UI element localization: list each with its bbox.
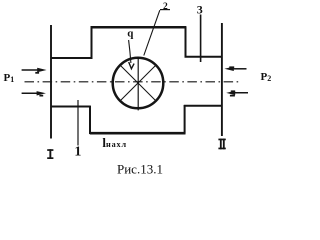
- specimen outline: middle block bottom edge: [90, 132, 186, 135]
- force arrow P1 lower shaft: [22, 92, 40, 94]
- arrowhead of left lower force arrow: [37, 91, 46, 95]
- svg-text:Рис.13.1: Рис.13.1: [117, 161, 163, 176]
- centerline axis (dash-dot): [25, 81, 241, 83]
- specimen outline: left strip bottom edge: [51, 106, 91, 108]
- specimen outline: bottom-left step vertical: [89, 106, 91, 134]
- specimen outline: top-right step vertical: [185, 27, 187, 58]
- section label II: [218, 139, 225, 150]
- svg-text:q: q: [127, 28, 134, 40]
- underline of label 2: [160, 9, 170, 11]
- section line I (left end of strip 1): [50, 25, 52, 139]
- circle diagonal diameter (upper-left to lower-right): [120, 65, 156, 101]
- svg-text:1: 1: [74, 145, 81, 160]
- svg-text:2: 2: [163, 2, 168, 12]
- circle diagonal diameter (lower-left to upper-right): [120, 65, 156, 101]
- plug weld circle: [113, 58, 164, 109]
- leader line for label 3: [200, 15, 202, 63]
- specimen outline: bottom-right step vertical: [184, 105, 186, 134]
- specimen outline: middle block top edge: [91, 26, 187, 29]
- specimen outline: left strip top edge: [51, 57, 92, 59]
- specimen outline: top-left step vertical: [91, 27, 93, 59]
- svg-text:3: 3: [197, 3, 203, 17]
- force arrow P2 lower shaft: [231, 92, 248, 94]
- force arrow P1 upper shaft: [22, 69, 40, 71]
- force arrow P2 upper shaft: [231, 68, 247, 70]
- arrowhead of right lower force arrow: [226, 91, 235, 95]
- specimen outline: right strip top edge: [185, 56, 223, 58]
- leader line for label 2: [144, 10, 160, 55]
- arrowhead of right upper force arrow: [224, 67, 233, 71]
- leader line for q with small arrow: [129, 40, 131, 63]
- section line II (right end of strip 3): [221, 23, 223, 136]
- specimen outline: right strip bottom edge: [184, 105, 222, 107]
- open arrowhead of q leader: [129, 62, 134, 69]
- leader line for label 1: [77, 100, 79, 146]
- arrowhead of left upper force arrow: [37, 68, 46, 72]
- circle vertical diameter: [137, 57, 139, 111]
- section label I: [47, 149, 53, 159]
